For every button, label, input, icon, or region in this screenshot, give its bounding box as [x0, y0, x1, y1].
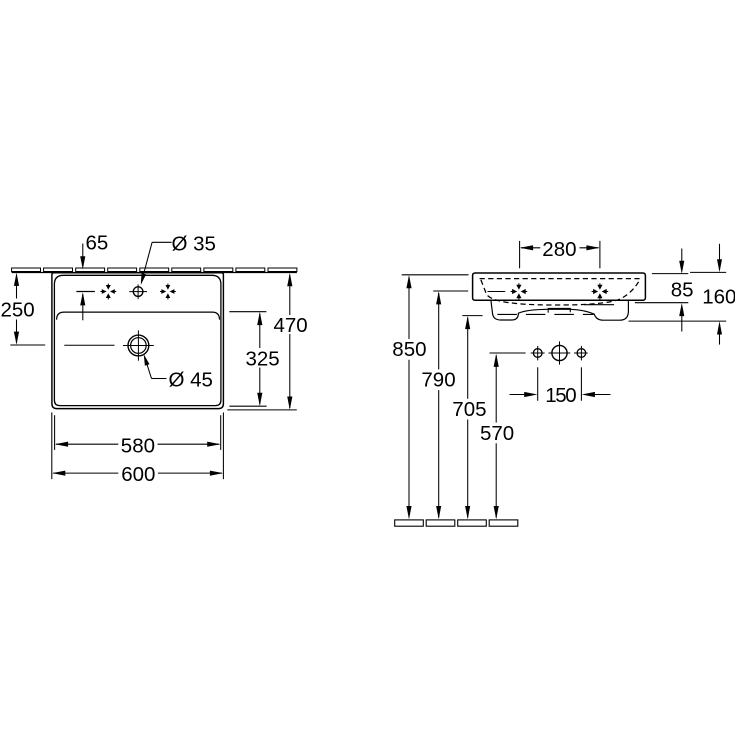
svg-text:280: 280 [542, 238, 576, 261]
svg-text:705: 705 [452, 398, 486, 421]
svg-text:160: 160 [702, 285, 735, 308]
svg-text:580: 580 [121, 434, 155, 457]
svg-text:Ø 35: Ø 35 [172, 233, 216, 256]
svg-text:790: 790 [421, 369, 455, 392]
svg-text:250: 250 [1, 299, 35, 322]
svg-text:325: 325 [246, 348, 280, 371]
svg-text:850: 850 [392, 338, 426, 361]
svg-text:65: 65 [86, 231, 109, 254]
svg-text:570: 570 [480, 422, 514, 445]
svg-text:85: 85 [671, 278, 694, 301]
svg-text:150: 150 [545, 384, 576, 407]
svg-text:600: 600 [121, 463, 155, 486]
svg-text:470: 470 [274, 314, 308, 337]
svg-text:Ø 45: Ø 45 [169, 369, 213, 392]
